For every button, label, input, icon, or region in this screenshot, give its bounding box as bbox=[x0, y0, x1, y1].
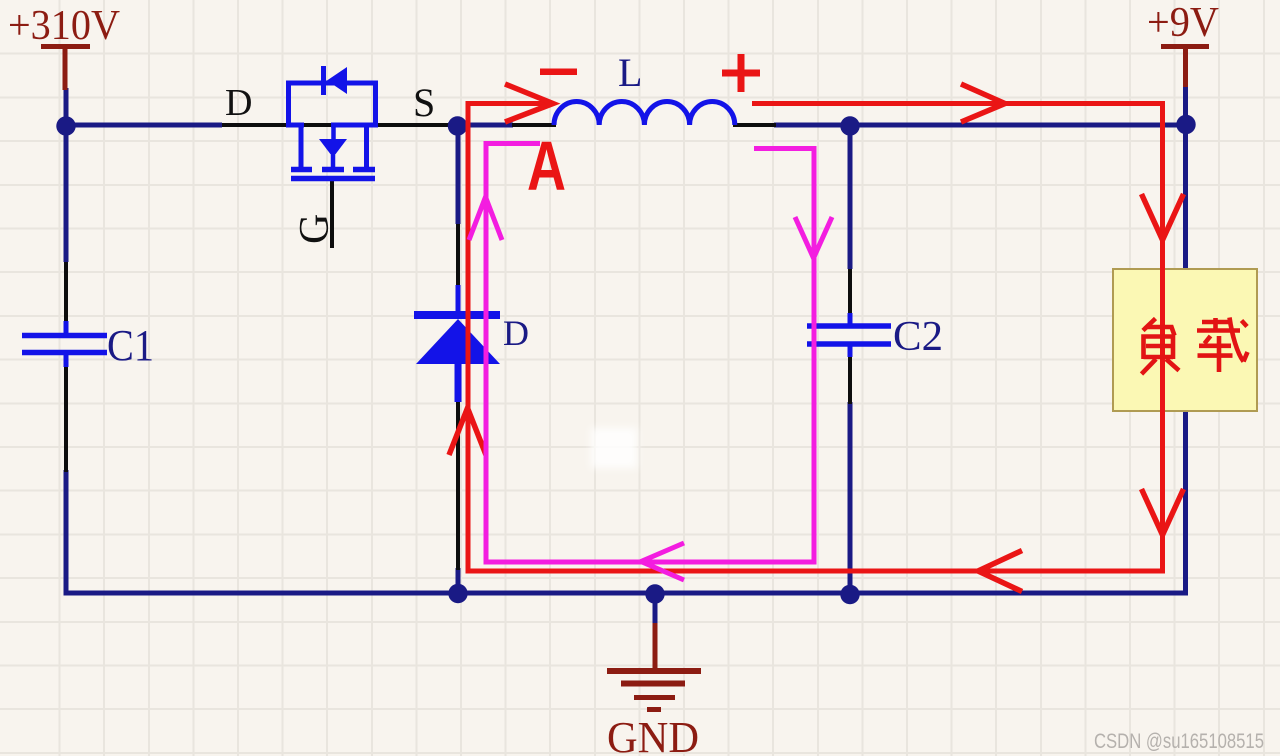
svg-text:L: L bbox=[618, 50, 642, 95]
svg-text:C2: C2 bbox=[893, 314, 943, 360]
svg-text:D: D bbox=[225, 82, 252, 124]
svg-text:D: D bbox=[503, 313, 529, 353]
svg-text:GND: GND bbox=[607, 713, 699, 756]
svg-text:+310V: +310V bbox=[8, 3, 120, 49]
svg-text:+9V: +9V bbox=[1147, 0, 1219, 46]
svg-text:S: S bbox=[413, 80, 435, 125]
svg-text:CSDN @su165108515: CSDN @su165108515 bbox=[1094, 730, 1264, 753]
svg-text:A: A bbox=[527, 127, 566, 205]
svg-text:C1: C1 bbox=[107, 321, 154, 370]
svg-text:G: G bbox=[292, 214, 338, 244]
